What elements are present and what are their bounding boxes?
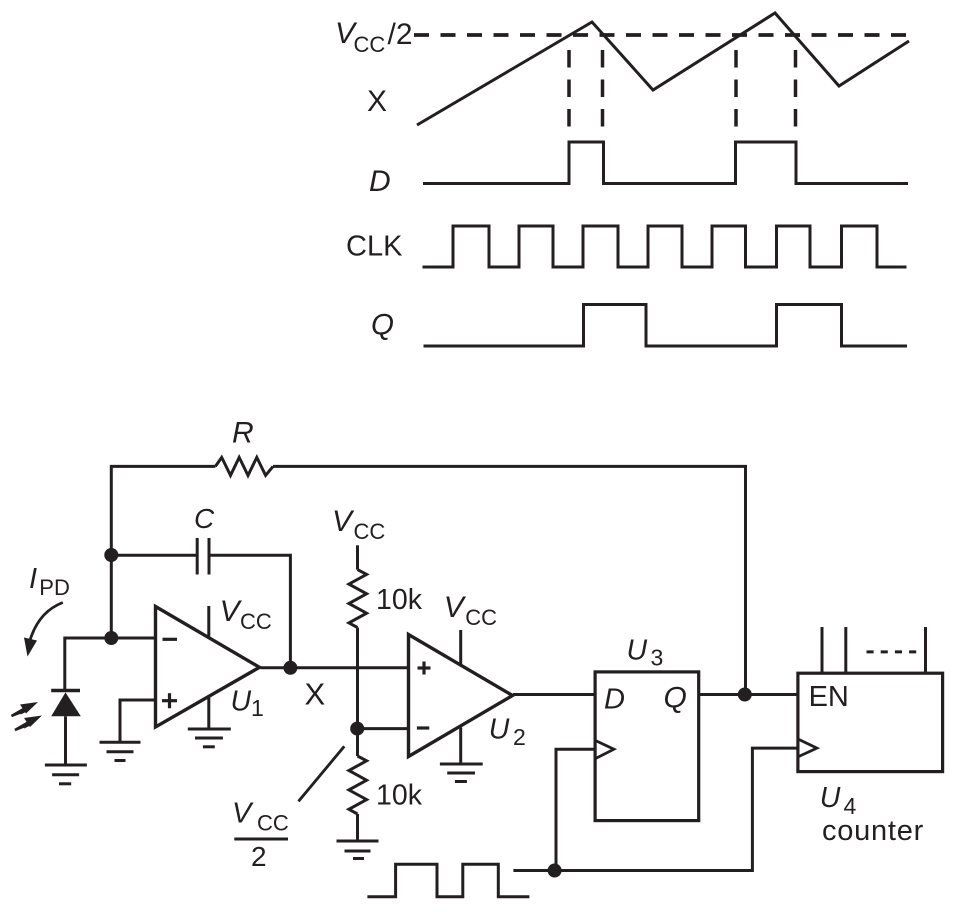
- svg-text:/2: /2: [388, 18, 413, 51]
- svg-text:PD: PD: [39, 575, 70, 600]
- wire to U2 inverting input: [357, 727, 408, 730]
- wire divider top: [356, 545, 359, 569]
- op-amp U2: [409, 635, 513, 757]
- light arrow 2: [15, 716, 42, 731]
- node X junction dot: [283, 661, 297, 675]
- svg-text:V: V: [232, 798, 254, 830]
- wire clock stub left: [513, 869, 554, 872]
- counter U4: [798, 673, 943, 771]
- svg-text:CC: CC: [354, 519, 386, 544]
- waveform X triangle wave: [417, 13, 909, 125]
- node Q junction dot: [738, 688, 752, 702]
- wire clock to U4: [555, 748, 798, 870]
- label U1: [231, 685, 264, 721]
- waveform Q: [424, 305, 908, 347]
- ground U1 noninverting: [100, 742, 141, 760]
- clock source waveform: [367, 864, 529, 897]
- svg-text:C: C: [194, 503, 215, 534]
- label U1 Vcc: [220, 595, 272, 634]
- svg-text:X: X: [367, 85, 387, 118]
- svg-text:I: I: [29, 563, 37, 595]
- dashed sample line 3: [734, 50, 738, 138]
- svg-text:V: V: [332, 505, 355, 538]
- svg-text:X: X: [305, 676, 326, 711]
- light arrow 1: [12, 702, 39, 716]
- wire inverting input U1: [111, 637, 156, 640]
- svg-text:3: 3: [651, 644, 664, 670]
- svg-text:D: D: [369, 165, 391, 198]
- U2 Vcc pin: [459, 630, 462, 666]
- ground U1: [188, 729, 231, 747]
- wire feedback top left: [111, 466, 215, 638]
- label U2: [489, 714, 526, 750]
- svg-text:Q: Q: [371, 309, 394, 342]
- wire divider bottom: [356, 814, 359, 840]
- svg-text:counter: counter: [822, 815, 924, 847]
- node junction dot B: [104, 631, 118, 645]
- capacitor C plates: [197, 538, 209, 575]
- U2 ground pin: [459, 728, 462, 764]
- svg-text:2: 2: [513, 724, 526, 750]
- label divider Vcc: [332, 505, 385, 544]
- svg-text:U: U: [820, 782, 841, 814]
- svg-text:CC: CC: [465, 605, 497, 630]
- svg-text:CC: CC: [354, 32, 386, 57]
- svg-text:10k: 10k: [376, 780, 423, 812]
- waveform CLK: [423, 226, 907, 267]
- dashed sample line 4: [794, 50, 798, 138]
- dashed sample line 2: [601, 50, 605, 138]
- svg-text:D: D: [604, 683, 625, 715]
- wire photodiode top: [65, 638, 112, 691]
- fraction bar Vcc/2: [234, 838, 288, 841]
- U4 top pin dots ellipsis: [867, 650, 917, 653]
- wire U3 clock input: [556, 749, 595, 870]
- node X wire: [261, 666, 409, 669]
- op-amp U1: [156, 607, 260, 728]
- svg-text:U: U: [627, 634, 648, 666]
- svg-text:CC: CC: [257, 811, 289, 836]
- U1 ground pin: [207, 698, 210, 728]
- wire U2 output to U3 D input: [513, 693, 595, 696]
- label U3: [627, 634, 664, 670]
- resistor R: [215, 457, 273, 475]
- svg-text:CC: CC: [240, 609, 272, 634]
- svg-text:U: U: [489, 714, 510, 746]
- ground divider: [337, 841, 379, 859]
- dashed sample line 1: [567, 50, 571, 138]
- svg-text:EN: EN: [809, 681, 849, 713]
- wire divider middle: [356, 628, 359, 757]
- svg-text:R: R: [232, 417, 254, 450]
- waveform D: [423, 142, 908, 184]
- pointer line Vcc/2: [299, 746, 345, 801]
- node divider midpoint dot: [350, 722, 364, 736]
- U4 top pin 1: [821, 627, 824, 673]
- label Vcc/2: [335, 17, 413, 57]
- flip-flop U3: [595, 672, 699, 821]
- wire Q output: [699, 693, 798, 696]
- label Vcc/2 fraction: [232, 798, 289, 873]
- svg-text:1: 1: [251, 695, 264, 721]
- ground photodiode: [45, 765, 87, 784]
- label IPD: [29, 563, 70, 600]
- current arrow IPD: [24, 603, 63, 657]
- photodiode D1: [51, 691, 81, 765]
- resistor R3 10k: [349, 756, 367, 814]
- node clock junction dot: [548, 864, 562, 878]
- U4 top pin 2: [844, 627, 847, 673]
- label U2 Vcc: [444, 591, 497, 630]
- node junction dot A: [104, 548, 118, 562]
- capacitor C left wire: [111, 554, 197, 557]
- ground U2: [440, 764, 483, 782]
- label U4: [820, 782, 857, 819]
- resistor R2 10k: [349, 570, 367, 628]
- wire noninverting input U1: [120, 700, 156, 741]
- svg-text:V: V: [444, 591, 467, 624]
- svg-text:U: U: [231, 685, 252, 717]
- wire feedback top right: [273, 466, 746, 694]
- dashed line Vcc/2 threshold: [414, 33, 907, 37]
- svg-text:Q: Q: [664, 681, 687, 714]
- capacitor C right wire: [209, 555, 290, 668]
- svg-text:2: 2: [251, 841, 267, 872]
- U4 top pin 3: [924, 627, 927, 673]
- svg-text:10k: 10k: [376, 584, 423, 616]
- U1 Vcc pin: [207, 606, 210, 637]
- svg-text:CLK: CLK: [346, 230, 403, 262]
